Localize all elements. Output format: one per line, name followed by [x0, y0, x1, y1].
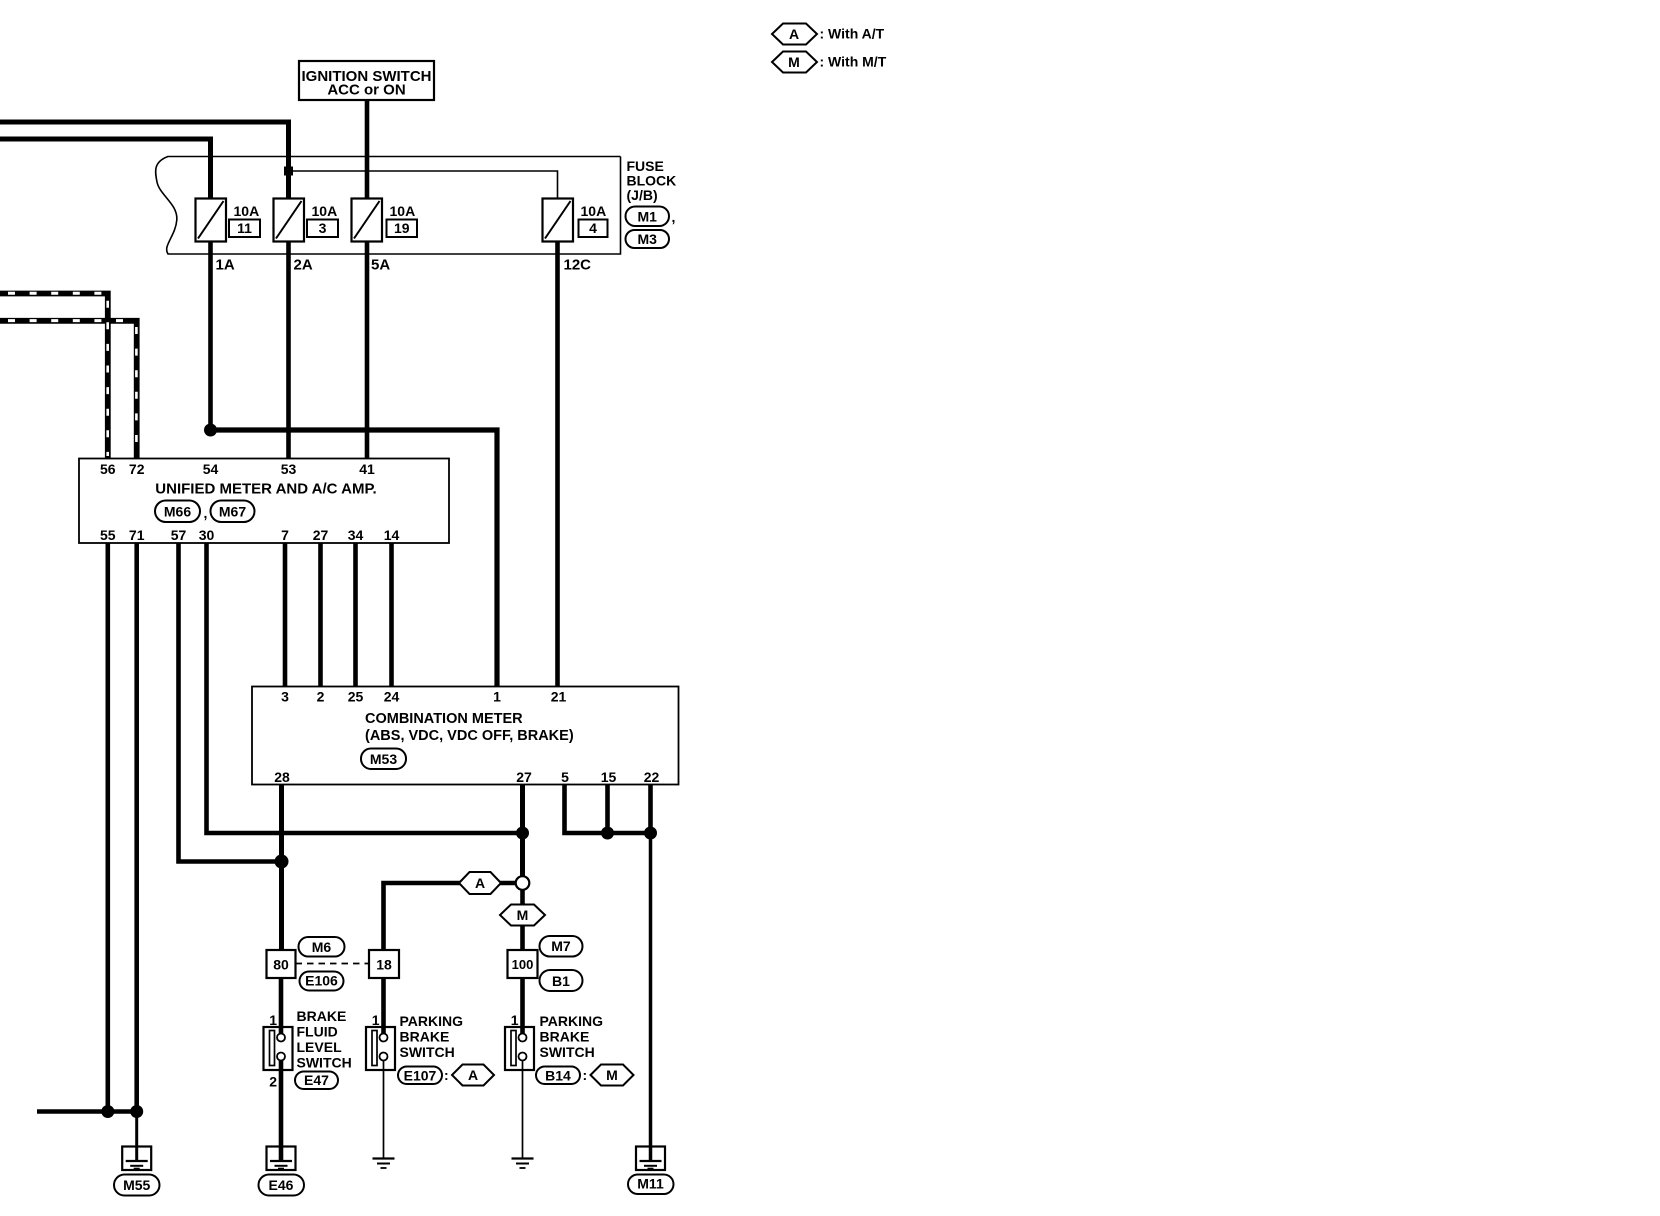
ground E107 branch [373, 1159, 395, 1169]
svg-text:10A: 10A [234, 203, 260, 219]
junction dot pin 28 / 57 [275, 855, 289, 869]
wire pin 34 to pin 25 [353, 543, 358, 687]
svg-text:B1: B1 [552, 973, 570, 989]
svg-text:2A: 2A [294, 256, 313, 273]
connector M7 [540, 936, 583, 957]
svg-text:M55: M55 [123, 1177, 150, 1193]
ground M11 [628, 1147, 674, 1195]
wire pin 71 down [134, 543, 139, 1112]
hexagon A branch [459, 872, 501, 894]
svg-text:10A: 10A [312, 203, 338, 219]
label brake fluid level switch [297, 1008, 352, 1071]
svg-text:1: 1 [269, 1012, 277, 1028]
junction dot pin 71 [130, 1105, 143, 1118]
svg-text:A: A [468, 1067, 478, 1083]
svg-text:,: , [672, 209, 676, 225]
wire switch pin 2 to ground E46 [279, 1060, 284, 1159]
svg-text:M53: M53 [370, 751, 397, 767]
connector M6 [299, 937, 345, 957]
svg-text:27: 27 [516, 769, 532, 785]
svg-text:M11: M11 [637, 1176, 664, 1192]
wire pin 22 to ground M11 [649, 833, 653, 1159]
svg-text:M: M [517, 907, 529, 923]
wire fuse 2A to pin 53 [286, 242, 291, 459]
svg-text:18: 18 [376, 956, 392, 972]
svg-text:71: 71 [129, 527, 145, 543]
svg-text:10A: 10A [390, 203, 416, 219]
svg-text:28: 28 [274, 769, 290, 785]
svg-text:BRAKE: BRAKE [297, 1008, 347, 1024]
svg-text:M66: M66 [164, 503, 191, 519]
svg-text:SWITCH: SWITCH [297, 1055, 352, 1071]
legend hexagon A (With A/T) [772, 24, 885, 45]
svg-text:15: 15 [601, 769, 617, 785]
svg-text:UNIFIED METER AND A/C AMP.: UNIFIED METER AND A/C AMP. [155, 481, 376, 498]
svg-text::: : [444, 1067, 449, 1083]
unified meter and a/c amp box M66 M67 [79, 459, 449, 544]
ground M55 [114, 1147, 160, 1196]
svg-text:SWITCH: SWITCH [400, 1044, 455, 1060]
svg-text:1: 1 [493, 689, 501, 705]
hexagon M branch [500, 905, 545, 926]
wire parking brake switch E107 to ground [383, 1060, 385, 1158]
label parking brake switch B14 [540, 1013, 604, 1060]
connector E107 [398, 1067, 449, 1085]
wire parking brake switch B14 to ground [522, 1060, 524, 1158]
svg-text:5: 5 [561, 769, 569, 785]
wire connector 80 to brake fluid level switch [279, 978, 284, 1034]
wire circle to hexagon M [520, 889, 525, 906]
wire fuse 12C to pin 21 [555, 242, 560, 687]
svg-text:21: 21 [551, 689, 567, 705]
connector M3 [626, 230, 670, 248]
svg-text:57: 57 [171, 527, 187, 543]
svg-text:4: 4 [589, 220, 597, 236]
svg-text:54: 54 [203, 461, 219, 477]
svg-text:12C: 12C [564, 256, 592, 273]
connector E47 [295, 1072, 338, 1090]
connector B14 [536, 1067, 587, 1085]
label parking brake switch E107 [400, 1013, 464, 1060]
wire hexagon A branch to connector 18 [459, 881, 516, 886]
wire pin 55 down [106, 543, 111, 1112]
svg-text::: : [583, 1067, 588, 1083]
ground B14 branch [512, 1159, 534, 1169]
svg-text:24: 24 [384, 689, 400, 705]
open circle junction [516, 876, 530, 890]
fuse 10A 4 [543, 199, 608, 242]
svg-text:M: M [606, 1067, 618, 1083]
svg-text:3: 3 [319, 220, 327, 236]
svg-text:BRAKE: BRAKE [540, 1029, 590, 1045]
wire fuse 5A to pin 41 [365, 242, 370, 459]
svg-text:19: 19 [394, 220, 410, 236]
svg-text:ACC or ON: ACC or ON [327, 82, 405, 99]
junction dot on pin 54 feed [204, 424, 217, 437]
wire pin 14 to pin 24 [389, 543, 394, 687]
connector E106 [300, 972, 344, 991]
connector B1 [540, 970, 583, 991]
shielded wire to pin 56 [0, 294, 108, 459]
hexagon M qualifier B14 [591, 1065, 634, 1086]
fuse 10A 11 [196, 199, 261, 242]
wire connector 100 to parking brake switch B14 [520, 978, 525, 1034]
svg-text:E107: E107 [404, 1067, 437, 1083]
svg-text:1A: 1A [216, 256, 235, 273]
svg-text:80: 80 [273, 956, 289, 972]
svg-text:A: A [475, 875, 485, 891]
wire junction to ground M55 [135, 1112, 138, 1160]
svg-text:55: 55 [100, 527, 116, 543]
dashed link 80 to 18 [296, 963, 370, 965]
svg-text:M67: M67 [219, 503, 246, 519]
wire pin 28 down to connector 80 [279, 785, 284, 951]
svg-text:2: 2 [317, 689, 325, 705]
svg-text:PARKING: PARKING [400, 1013, 464, 1029]
shield dash pattern pin 56 wire [8, 293, 108, 456]
shielded wire to pin 72 [0, 321, 137, 459]
wire fuse 1A to junction [208, 242, 213, 431]
svg-text:1: 1 [511, 1012, 519, 1028]
wire pin 27 down to circle junction [520, 785, 525, 879]
svg-text:5A: 5A [371, 256, 390, 273]
connector 80 [267, 950, 296, 978]
legend hexagon M (With M/T) [772, 52, 887, 73]
svg-text:M6: M6 [312, 939, 332, 955]
svg-text:53: 53 [281, 461, 297, 477]
parking brake switch B14 [505, 1027, 534, 1070]
wire pin 7 to pin 3 [283, 543, 288, 687]
ground E46 [259, 1147, 305, 1196]
svg-text:(ABS, VDC, VDC OFF, BRAKE): (ABS, VDC, VDC OFF, BRAKE) [365, 728, 574, 744]
svg-text:A: A [789, 26, 799, 42]
junction dot pin 22 [644, 827, 657, 840]
junction dot pin 15 [601, 827, 614, 840]
label FUSE BLOCK (J/B) [627, 158, 677, 203]
svg-text:E106: E106 [305, 973, 338, 989]
fuse 10A 3 [274, 199, 339, 242]
wire inside fuse block to fuse 12C [289, 171, 558, 199]
svg-text:PARKING: PARKING [540, 1013, 604, 1029]
wire pin 27 to pin 2 [318, 543, 323, 687]
wire pin 5 to pin 22 [565, 785, 651, 834]
svg-text:10A: 10A [581, 203, 607, 219]
connector M1 [626, 207, 676, 227]
wire connector 18 to parking brake switch E107 [381, 978, 386, 1034]
connector 100 [508, 950, 538, 978]
wire pin 15 down [605, 785, 610, 834]
wire ignition switch to fuse 5A [365, 100, 370, 199]
svg-text:M1: M1 [637, 208, 657, 224]
svg-text:,: , [204, 505, 208, 521]
svg-text:25: 25 [348, 689, 364, 705]
svg-text:SWITCH: SWITCH [540, 1044, 595, 1060]
svg-text:(J/B): (J/B) [627, 187, 658, 203]
connector 18 [369, 950, 399, 978]
junction dot pin 27 / 30 [516, 827, 529, 840]
junction dot pin 55 [101, 1105, 114, 1118]
svg-text:BRAKE: BRAKE [400, 1029, 450, 1045]
svg-text:11: 11 [237, 220, 252, 236]
svg-text:1: 1 [372, 1012, 380, 1028]
wire bottom-left feed [37, 1109, 137, 1114]
svg-text:M: M [788, 54, 800, 70]
svg-text:56: 56 [100, 461, 116, 477]
fuse block (J/B) outline with torn left edge [156, 157, 621, 255]
fuse 10A 19 [352, 199, 418, 242]
wire pin 30 to pin 27 junction [207, 543, 523, 833]
svg-text:30: 30 [199, 527, 215, 543]
svg-text:27: 27 [313, 527, 329, 543]
junction square on 2A feed [284, 167, 293, 176]
svg-text:LEVEL: LEVEL [297, 1039, 343, 1055]
svg-text:3: 3 [281, 689, 289, 705]
svg-text:7: 7 [281, 527, 289, 543]
wire main feed to combination meter pin 1 [211, 430, 498, 687]
svg-text:: With A/T: : With A/T [820, 26, 885, 42]
wire pin 22 down [648, 785, 653, 834]
svg-text:72: 72 [129, 461, 145, 477]
parking brake switch E107 [366, 1027, 395, 1070]
svg-text:2: 2 [269, 1074, 277, 1090]
svg-text:34: 34 [348, 527, 364, 543]
wire pin 57 to pin 28 junction [179, 543, 282, 862]
svg-text:: With M/T: : With M/T [820, 54, 887, 70]
svg-text:COMBINATION METER: COMBINATION METER [365, 711, 523, 727]
svg-text:B14: B14 [545, 1067, 571, 1083]
combination meter box M53 [252, 687, 679, 786]
wire battery feed to fuse 2A [0, 122, 289, 199]
wire hexagon M to connector 100 [520, 926, 525, 951]
svg-text:100: 100 [512, 957, 534, 972]
svg-text:41: 41 [359, 461, 375, 477]
brake fluid level switch [264, 1027, 293, 1070]
svg-text:14: 14 [384, 527, 400, 543]
shield dash pattern pin 72 wire [8, 321, 136, 456]
svg-text:22: 22 [644, 769, 660, 785]
hexagon A qualifier E107 [452, 1065, 494, 1086]
wire battery feed to fuse 1A [0, 139, 211, 199]
ignition switch box [299, 61, 434, 100]
svg-text:M3: M3 [637, 231, 657, 247]
svg-text:FLUID: FLUID [297, 1024, 338, 1040]
svg-text:E47: E47 [304, 1072, 329, 1088]
svg-text:E46: E46 [269, 1177, 294, 1193]
svg-text:M7: M7 [551, 938, 571, 954]
